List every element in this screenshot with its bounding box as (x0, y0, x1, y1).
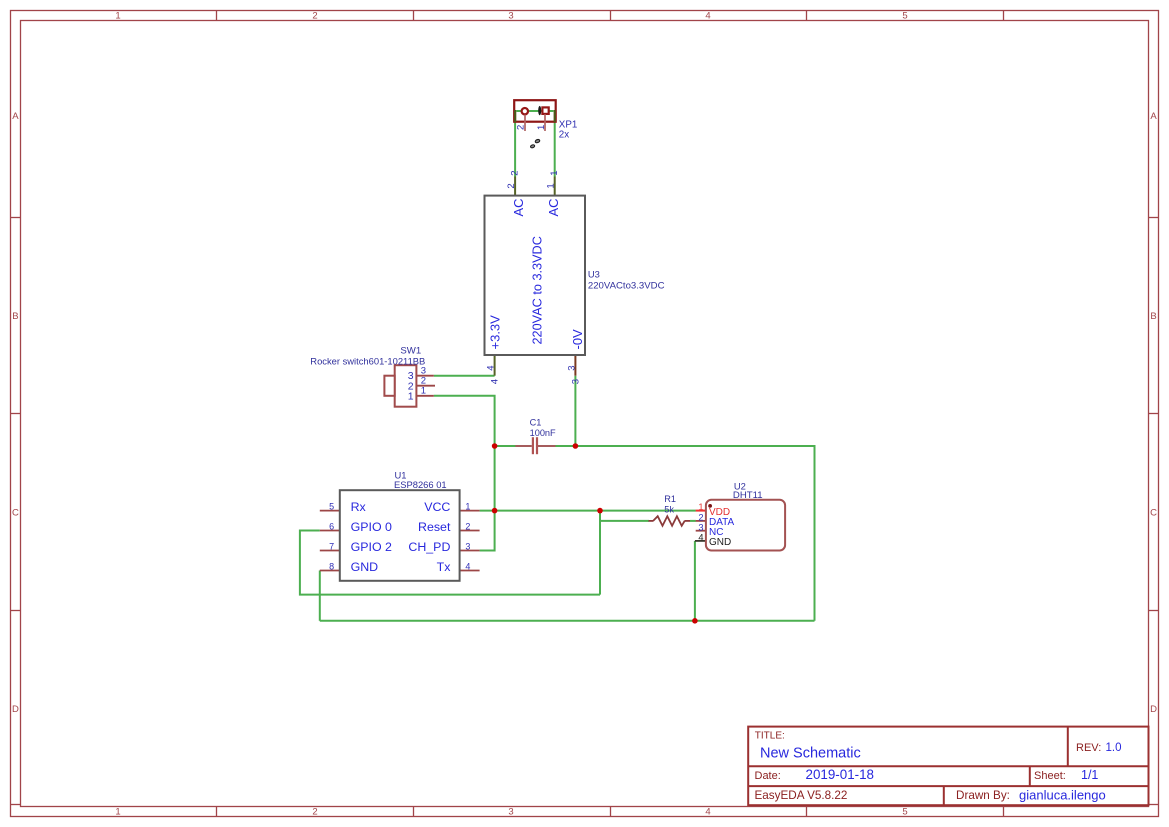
junction ground rail (692, 618, 698, 624)
U1 right pin numbers (465, 501, 470, 571)
svg-text:EasyEDA V5.8.22: EasyEDA V5.8.22 (755, 789, 848, 802)
U1 pin 5 stub (320, 510, 340, 512)
junction VCC right (597, 508, 603, 514)
junction VCC left (492, 508, 498, 514)
svg-text:GND: GND (709, 537, 731, 548)
C1 left lead (515, 445, 531, 447)
svg-text:4: 4 (705, 807, 710, 818)
svg-text:2: 2 (312, 11, 317, 22)
svg-text:Date:: Date: (755, 770, 781, 782)
U1 pin 6 stub (320, 530, 340, 532)
wire C1 left (495, 445, 516, 447)
svg-text:2: 2 (698, 513, 703, 523)
U3 pin 4 stub (494, 356, 496, 376)
svg-text:1: 1 (421, 386, 426, 397)
svg-text:1: 1 (115, 11, 120, 22)
wire XP1 pin2 to U3 pin2 (514, 111, 516, 177)
wire ground bottom rail (320, 620, 815, 622)
svg-text:3: 3 (566, 365, 577, 370)
svg-text:D: D (12, 704, 19, 715)
svg-text:1/1: 1/1 (1081, 768, 1098, 782)
svg-text:2: 2 (312, 807, 317, 818)
U1 left pin names (351, 500, 392, 574)
C1 plates (532, 437, 534, 454)
U2 pin 1 stub (696, 510, 706, 512)
svg-text:New Schematic: New Schematic (760, 745, 861, 761)
svg-text:220VACto3.3VDC: 220VACto3.3VDC (588, 280, 665, 291)
svg-text:5: 5 (902, 807, 907, 818)
SW1 body (395, 365, 417, 407)
wire U3 pin4 to SW1 pin3 (434, 375, 495, 377)
svg-text:7: 7 (329, 541, 334, 551)
svg-text:1: 1 (698, 502, 703, 512)
U2 pin1 marker dot (708, 504, 712, 508)
svg-text:4: 4 (465, 561, 470, 571)
wire U1 GND down (319, 571, 321, 621)
R1 right lead (684, 520, 690, 522)
svg-text:CH_PD: CH_PD (408, 540, 450, 554)
svg-text:A: A (1150, 111, 1157, 122)
switch SW1 (310, 346, 435, 407)
svg-text:5: 5 (902, 11, 907, 22)
XP1 pin 2 stub (524, 115, 526, 131)
power module U3 (485, 171, 665, 385)
svg-text:5k: 5k (664, 504, 674, 514)
svg-text:4: 4 (698, 533, 703, 543)
U1 pin 4 stub (460, 570, 480, 572)
svg-text:5: 5 (329, 501, 334, 511)
SW1 pin 3 stub (416, 375, 433, 377)
U1 pin 3 stub (460, 550, 480, 552)
wire XP1 pin1 to U3 pin1 (554, 111, 556, 177)
svg-text:2: 2 (465, 521, 470, 531)
svg-text:3: 3 (508, 807, 513, 818)
svg-text:Sheet:: Sheet: (1034, 770, 1066, 782)
svg-text:2: 2 (506, 183, 517, 188)
svg-text:1.0: 1.0 (1106, 742, 1122, 754)
svg-text:U3: U3 (588, 269, 600, 280)
svg-text:-0V: -0V (570, 329, 585, 350)
svg-text:Rx: Rx (351, 500, 367, 514)
svg-text:2x: 2x (559, 130, 569, 141)
svg-text:3: 3 (570, 379, 581, 384)
svg-text:1: 1 (465, 501, 470, 511)
wire SW1 pin1 to +3.3V rail (434, 396, 495, 551)
svg-text:1: 1 (536, 125, 547, 130)
XP1 key ellipse (538, 106, 541, 115)
SW1 inner pin numbers (408, 370, 414, 402)
XP1 decoration dots (535, 139, 540, 143)
wire DHT11 GND up (694, 541, 696, 621)
svg-text:REV:: REV: (1076, 742, 1101, 754)
title block (748, 727, 1148, 806)
svg-text:4: 4 (486, 365, 497, 370)
U2 pin 4 stub (695, 540, 706, 542)
svg-text:GND: GND (351, 560, 379, 574)
wire VCC row (480, 510, 696, 512)
svg-text:1: 1 (408, 390, 414, 402)
wire C1 right (554, 445, 575, 447)
C1 right lead (538, 445, 556, 447)
svg-text:B: B (12, 311, 18, 322)
SW1 outer pin numbers (421, 365, 426, 396)
svg-text:Reset: Reset (418, 520, 451, 534)
svg-text:Drawn By:: Drawn By: (956, 789, 1010, 802)
SW1 pin 2 stub (416, 385, 435, 387)
svg-text:8: 8 (329, 561, 334, 571)
U1 left pin numbers (329, 501, 334, 571)
svg-text:ESP8266 01: ESP8266 01 (394, 479, 447, 490)
svg-text:R1: R1 (664, 494, 676, 504)
XP1 pin 2 circle (522, 108, 528, 114)
U1 right pin names (408, 500, 451, 574)
U1 pin 7 stub (320, 550, 340, 552)
svg-text:+3.3V: +3.3V (487, 315, 502, 350)
wire 0V loop right (575, 446, 814, 621)
U3 pin 3 stub (574, 356, 576, 376)
svg-text:1: 1 (549, 171, 560, 176)
SW1 actuator (384, 376, 394, 396)
U3 pin 2 stub (514, 177, 516, 196)
U1 pin 2 stub (460, 530, 480, 532)
svg-text:3: 3 (508, 11, 513, 22)
svg-text:VCC: VCC (424, 500, 450, 514)
U1 pin 1 stub (460, 510, 480, 512)
R1 zigzag (653, 516, 685, 526)
svg-text:Tx: Tx (437, 560, 452, 574)
svg-text:D: D (1150, 704, 1157, 715)
U3 pin 1 stub (554, 177, 556, 196)
wire R1 row (600, 520, 649, 522)
sensor U2 DHT11 (695, 480, 785, 550)
svg-text:220VAC to 3.3VDC: 220VAC to 3.3VDC (531, 236, 545, 344)
U2 body (706, 500, 785, 551)
svg-text:100nF: 100nF (530, 428, 556, 438)
svg-text:Rocker switch601-10211BB: Rocker switch601-10211BB (310, 355, 425, 366)
svg-text:AC: AC (511, 198, 526, 216)
wire blend over box edge left (514, 110, 516, 122)
wire node to R1 vertical (599, 511, 601, 595)
svg-text:DHT11: DHT11 (733, 490, 763, 501)
wire GPIO0 loop (300, 531, 600, 595)
svg-text:GPIO 2: GPIO 2 (351, 540, 392, 554)
wire U3 pin3 down (574, 376, 576, 446)
svg-text:4: 4 (490, 379, 501, 384)
svg-text:2: 2 (516, 125, 527, 130)
U1 pin 8 stub (320, 570, 340, 572)
svg-text:B: B (1150, 311, 1156, 322)
junction dots (492, 443, 698, 623)
svg-text:AC: AC (546, 198, 561, 216)
svg-text:gianluca.ilengo: gianluca.ilengo (1019, 788, 1106, 803)
U3 body (485, 196, 586, 355)
svg-text:2019-01-18: 2019-01-18 (806, 767, 875, 782)
connector XP1 (514, 100, 577, 148)
svg-text:TITLE:: TITLE: (755, 731, 785, 742)
XP1 pin 1 stub (544, 114, 546, 131)
svg-text:C1: C1 (530, 418, 542, 428)
svg-text:GPIO 0: GPIO 0 (351, 520, 392, 534)
svg-text:6: 6 (329, 521, 334, 531)
svg-text:3: 3 (465, 541, 470, 551)
SW1 pin 1 stub (416, 395, 433, 397)
junction C1 right (573, 443, 579, 449)
U2 pin 2 stub (696, 520, 706, 522)
svg-text:C: C (1150, 508, 1157, 519)
resistor R1 (649, 494, 696, 526)
svg-text:3: 3 (698, 523, 703, 533)
XP1 pin 1 square (542, 107, 548, 114)
wire XP1 internal bus (515, 110, 555, 112)
svg-text:1: 1 (115, 807, 120, 818)
IC U1 ESP8266 (320, 470, 480, 581)
svg-text:1: 1 (546, 183, 557, 188)
svg-text:4: 4 (705, 11, 710, 22)
U1 body (340, 490, 460, 581)
svg-text:2: 2 (509, 171, 520, 176)
capacitor C1 (515, 418, 556, 455)
U2 pin 3 stub (696, 530, 706, 532)
junction C1 left (492, 443, 498, 449)
svg-text:C: C (12, 508, 19, 519)
R1 left lead (649, 520, 654, 522)
wire blend over box edge right (554, 110, 556, 122)
svg-text:A: A (12, 111, 19, 122)
